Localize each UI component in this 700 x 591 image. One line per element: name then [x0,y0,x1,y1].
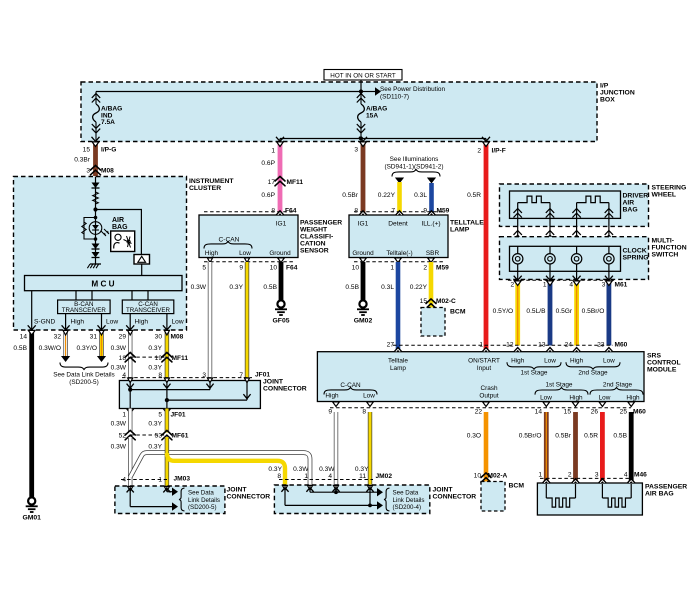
svg-text:7: 7 [391,208,395,215]
C-CAN transceiver block [122,300,174,314]
connector M59 dashed line at telltale bottom [354,261,443,263]
svg-text:Detent: Detent [388,221,408,228]
svg-text:Low: Low [540,394,552,401]
svg-text:0.3W: 0.3W [191,284,207,291]
svg-text:10: 10 [352,265,360,272]
connector M46 dashed line [540,477,631,479]
steering wheel box [500,184,649,226]
svg-text:SBR: SBR [426,250,440,257]
svg-text:4: 4 [569,282,573,289]
I/P junction box [81,82,597,142]
svg-text:CLOCK: CLOCK [623,248,647,255]
svg-text:High: High [325,392,339,399]
wire S-GND 0.5B to GM01 [29,331,34,497]
svg-text:GM01: GM01 [22,515,41,522]
connector MF11 in-line mark [275,176,285,185]
SRS control module box [317,352,644,402]
svg-text:MODULE: MODULE [647,367,677,374]
joint connector JF01 box [119,381,260,409]
svg-text:Output: Output [479,392,498,399]
svg-text:3: 3 [602,282,606,289]
svg-text:I/P-G: I/P-G [101,147,116,154]
svg-text:0.3Y: 0.3Y [148,345,162,352]
JF01 internal links [129,381,131,409]
svg-text:(SD110-7): (SD110-7) [380,93,409,100]
wire I/P-F 0.5R (junction box pin 2 to SRS pin 1) [484,142,489,352]
HOT IN ON OR START tag [324,70,402,81]
svg-text:1: 1 [479,342,483,349]
passenger air bag box [537,483,642,515]
svg-text:Ground: Ground [352,250,374,257]
wire 0.5Y/O (clock spring to SRS pin 12) [515,281,520,346]
wire 0.22Y (SBR to BCM M02-C pin 15) [429,262,434,308]
svg-text:CONTROL: CONTROL [647,360,681,367]
wire - cluster lamp branch [95,177,97,265]
svg-text:STEERING: STEERING [652,185,687,192]
svg-text:JF01: JF01 [171,412,186,419]
svg-text:BAG: BAG [623,207,638,214]
BCM box (M02-C) [421,308,445,337]
svg-text:(SD200-5): (SD200-5) [69,379,98,386]
svg-text:(SD200-5): (SD200-5) [188,504,217,511]
svg-text:2: 2 [423,265,427,272]
svg-text:30: 30 [155,334,163,341]
svg-text:2nd Stage: 2nd Stage [578,369,608,376]
svg-text:18: 18 [119,355,127,362]
svg-text:9: 9 [423,208,427,215]
svg-text:24: 24 [565,342,573,349]
svg-text:F64: F64 [286,265,298,272]
svg-text:High: High [71,319,85,326]
svg-text:M59: M59 [437,208,450,215]
svg-text:23: 23 [597,342,605,349]
svg-text:14: 14 [535,408,543,415]
wire 0.5L/B (clock spring to SRS pin 13) [548,281,553,346]
connector F64 dashed line at PWCS top [204,211,294,213]
wire 0.3L (telltale to SRS pin 27) [396,262,401,352]
svg-text:0.3Y/O: 0.3Y/O [76,345,97,352]
svg-text:PASSENGER: PASSENGER [300,220,342,227]
connector F64 dashed line at PWCS bottom [204,261,294,263]
svg-text:M08: M08 [101,168,114,175]
svg-text:13: 13 [538,342,546,349]
svg-text:TELLTALE: TELLTALE [450,220,484,227]
svg-text:10: 10 [270,265,278,272]
svg-text:9: 9 [328,408,332,415]
svg-text:SPRING: SPRING [623,255,649,262]
svg-text:AIR: AIR [112,217,124,224]
svg-text:0.3Y: 0.3Y [229,284,243,291]
svg-text:(SD200-4): (SD200-4) [393,504,422,511]
svg-text:WHEEL: WHEEL [652,192,677,199]
wire 0.3W (JF01 pin 1 to MF61 pin 52) [128,409,132,433]
svg-text:0.5B: 0.5B [13,345,27,352]
svg-text:M59: M59 [436,265,449,272]
svg-text:Low: Low [363,392,375,399]
svg-text:15: 15 [83,147,91,154]
svg-text:0.5R: 0.5R [584,433,598,440]
svg-text:10: 10 [474,473,482,480]
arrow into 0.3L wire [427,178,436,184]
svg-text:Low: Low [172,319,184,326]
svg-text:Low: Low [603,357,615,364]
connector JM03 dashed line [121,479,167,481]
svg-text:JOINT: JOINT [263,379,284,386]
JM03 internal arrows to data link [128,486,133,491]
svg-text:High: High [511,357,525,364]
svg-text:Ground: Ground [269,250,291,257]
wire - internal bus to fuses [96,91,361,93]
ground GM02 [359,300,366,307]
svg-text:See Data: See Data [188,490,214,497]
connector M02-C in-line mark [426,299,436,308]
multi-function switch box [500,237,649,280]
svg-text:0.5B: 0.5B [263,284,277,291]
wire 0.3Y (PWCS C-CAN Low to JF01 pin 7) [245,262,249,381]
svg-text:4: 4 [624,472,628,479]
svg-text:GM02: GM02 [354,318,373,325]
svg-text:15: 15 [564,408,572,415]
svg-text:0.3Y: 0.3Y [148,444,162,451]
svg-text:I/P: I/P [600,83,609,90]
svg-text:INSTRUMENT: INSTRUMENT [189,178,234,185]
svg-text:JUNCTION: JUNCTION [600,90,635,97]
svg-text:F64: F64 [285,208,297,215]
diode D2 [92,244,100,250]
wire 0.3W (SRS C-CAN High to JM02 pin 4) [334,412,338,485]
svg-text:19: 19 [155,355,163,362]
svg-text:11: 11 [359,473,366,480]
svg-text:2: 2 [511,282,515,289]
svg-text:0.5Br/O: 0.5Br/O [582,308,605,315]
wire 0.3Y (MF61 to JM03 pin 1 and branch to JM02 pin 8) [165,437,169,486]
svg-text:26: 26 [591,408,599,415]
svg-text:JOINT: JOINT [433,487,454,494]
ground - cluster internal [90,263,101,265]
svg-text:SENSOR: SENSOR [300,248,329,255]
svg-text:MF11: MF11 [172,355,189,362]
connector M61 dashed line [508,279,614,281]
svg-text:2: 2 [568,472,572,479]
svg-text:CONNECTOR: CONNECTOR [263,386,307,393]
wire 0.5B (SRS pin 25 to passenger airbag pin 4) [629,412,634,483]
svg-text:0.3L: 0.3L [381,284,394,291]
svg-text:1: 1 [538,472,542,479]
arrow - See Power Distribution [361,91,375,93]
svg-text:AIR BAG: AIR BAG [645,491,674,498]
svg-text:TRANSCEIVER: TRANSCEIVER [126,307,171,314]
svg-text:0.3W: 0.3W [111,345,127,352]
diode D1 [92,183,100,189]
node - fuse output junction [359,136,363,140]
wire 0.3Y/O (B-CAN Low to data link) [99,331,103,356]
connector JM02 dashed line [279,479,373,481]
See Data Link Details (SD200-5) reference [60,363,108,370]
svg-text:CONNECTOR: CONNECTOR [227,494,271,501]
connector M60 dashed line at SRS top [393,344,613,346]
wires - driver air bag to clock spring [517,218,519,247]
wire 0.5B (PWCS ground to GF05) [279,262,284,300]
svg-text:M46: M46 [634,472,647,479]
svg-text:12: 12 [506,342,514,349]
svg-text:High: High [569,394,583,401]
wire 0.6P (junction box pin 1 to F64 pin 8) [278,142,283,215]
svg-text:8: 8 [362,408,366,415]
svg-text:0.3O: 0.3O [467,433,481,440]
connector M08 in-line mark [91,165,101,174]
svg-text:0.3L: 0.3L [414,192,427,199]
svg-text:0.22Y: 0.22Y [410,284,428,291]
wire 0.5Br/O (SRS pin 14 to passenger airbag pin 1) [544,412,549,483]
svg-text:0.3W: 0.3W [111,444,127,451]
svg-text:M60: M60 [615,342,628,349]
svg-text:High: High [205,250,219,257]
svg-text:GF05: GF05 [273,318,290,325]
svg-text:4: 4 [328,473,332,480]
svg-text:M08: M08 [171,334,184,341]
svg-text:0.5Y/O: 0.5Y/O [493,308,514,315]
svg-text:15A: 15A [366,112,378,119]
svg-text:32: 32 [54,334,62,341]
svg-text:0.6P: 0.6P [261,192,275,199]
svg-text:Input: Input [477,365,491,372]
svg-text:M C U: M C U [91,280,114,289]
wire I/P-G 0.3Br (junction box pin 15 to M08) [93,142,98,176]
svg-text:0.5Br/O: 0.5Br/O [519,433,542,440]
instrument cluster box [14,177,187,331]
svg-text:0.5L/B: 0.5L/B [526,308,546,315]
svg-text:1: 1 [390,265,394,272]
svg-text:Link Details: Link Details [188,497,220,504]
svg-text:High: High [570,357,584,364]
svg-text:31: 31 [90,334,98,341]
svg-text:0.3Y: 0.3Y [148,365,162,372]
connector M59 dashed line at telltale top [354,211,443,213]
svg-text:Lamp: Lamp [390,365,406,372]
svg-text:17: 17 [268,179,276,186]
svg-text:8: 8 [277,473,281,480]
svg-text:7.5A: 7.5A [101,119,115,126]
svg-text:1: 1 [122,412,126,419]
svg-text:1st Stage: 1st Stage [520,369,547,376]
passenger air bag squib 1 [545,484,547,498]
svg-text:3: 3 [595,472,599,479]
ground GM01 [28,497,35,504]
svg-text:JM03: JM03 [174,475,191,482]
driver air bag squib 1 [517,203,519,218]
svg-text:I/P-F: I/P-F [492,148,506,155]
svg-text:CATION: CATION [300,241,326,248]
svg-text:AIR: AIR [623,200,635,207]
svg-text:1: 1 [543,282,547,289]
passenger air bag squib 2 [601,484,603,498]
svg-text:Low: Low [544,357,556,364]
ground GF05 [277,300,284,307]
wires - transceivers to cluster connector [65,314,67,330]
svg-text:JM02: JM02 [376,473,393,480]
svg-text:29: 29 [119,334,127,341]
connector JF01 dashed line at top [122,377,252,379]
svg-text:14: 14 [20,334,28,341]
wire 0.5Gr (clock spring to SRS pin 24) [574,281,579,346]
svg-text:3: 3 [354,147,358,154]
connector MF11 in-line (pins 18/19) [130,356,167,358]
svg-text:0.5B: 0.5B [345,284,359,291]
resistor R1 [93,192,99,204]
wire 0.3Y (SRS C-CAN Low to JM02 pin 11) [368,412,372,485]
clock spring box [510,246,621,271]
node - bus junction [359,89,363,93]
JM02 internal arrows to data link [282,485,287,490]
svg-text:JF01: JF01 [255,372,270,379]
wire - MCU to S-GND pin [31,291,33,330]
wires - MCU to C-CAN transceiver [131,291,133,300]
wire - branch to warning symbol and MCU [96,210,142,255]
svg-text:LAMP: LAMP [450,227,470,234]
svg-text:See Data: See Data [393,490,419,497]
svg-text:IG1: IG1 [276,221,287,228]
svg-text:DRIVER: DRIVER [623,193,649,200]
telltale lamp box [349,215,448,258]
svg-text:25: 25 [620,408,628,415]
wires - MCU to B-CAN transceiver [75,291,77,300]
wire 0.3L (illumination to M59 pin 9) [429,183,434,215]
svg-text:TRANSCEIVER: TRANSCEIVER [62,307,107,314]
svg-text:Telltale(-): Telltale(-) [386,250,412,257]
joint connector JM03 box [115,486,225,514]
svg-text:CLUSTER: CLUSTER [189,185,221,192]
diode D3 [92,252,100,258]
svg-text:MF11: MF11 [287,179,304,186]
svg-text:0.6P: 0.6P [261,160,275,167]
wire 0.3W/O (B-CAN High to data link) [63,331,67,356]
wire 0.3Y (C-CAN Low, cluster to JF01 pin 8) [165,331,169,381]
svg-text:1st Stage: 1st Stage [545,381,572,388]
joint connector JM02 box [274,485,429,514]
airbag LED indicator [94,216,98,220]
svg-text:1: 1 [271,148,275,155]
svg-text:0.5Br: 0.5Br [555,433,572,440]
svg-text:5: 5 [202,265,206,272]
svg-text:BOX: BOX [600,97,615,104]
wire 0.5Br (SRS pin 15 to passenger airbag pin 2) [573,412,578,483]
svg-text:HOT IN ON OR START: HOT IN ON OR START [330,73,396,80]
svg-text:0.3W/O: 0.3W/O [39,345,61,352]
svg-text:See Illuminations: See Illuminations [390,156,439,163]
svg-text:BCM: BCM [450,309,466,316]
svg-text:M02-C: M02-C [436,298,456,305]
driver air bag squib 2 [576,203,578,218]
wire - internal bus from 15A fuse to pins 1 and 2 [280,138,486,140]
BCM box (M02-A) [481,482,505,512]
svg-text:WEIGHT: WEIGHT [300,227,328,234]
svg-text:BCM: BCM [509,483,525,490]
svg-text:22: 22 [475,408,483,415]
svg-text:MULTI-: MULTI- [652,237,675,244]
svg-text:SRS: SRS [647,353,661,360]
svg-text:Low: Low [599,394,611,401]
driver air bag box [510,191,621,218]
wire 0.5R (SRS pin 26 to passenger airbag pin 3) [600,412,605,483]
svg-text:0.22Y: 0.22Y [378,192,396,199]
wire 0.5B (telltale ground to GM02) [361,262,366,300]
svg-text:See Power Distribution: See Power Distribution [380,86,445,93]
svg-text:See Data Link Details: See Data Link Details [53,372,114,379]
svg-text:0.5R: 0.5R [467,192,481,199]
svg-text:ON/START: ON/START [468,358,500,365]
svg-text:27: 27 [387,342,395,349]
svg-text:2nd Stage: 2nd Stage [603,381,633,388]
svg-text:2: 2 [477,148,481,155]
B-CAN transceiver block [58,300,111,314]
svg-text:0.3W: 0.3W [319,466,335,473]
svg-text:BAG: BAG [112,224,128,231]
svg-text:JOINT: JOINT [227,487,248,494]
svg-text:0.5B: 0.5B [613,433,627,440]
wire 0.5Br/O (clock spring to SRS pin 23) [607,281,612,346]
svg-text:Telltale: Telltale [388,358,408,365]
fuse A/BAG 15A [357,94,365,103]
svg-text:MF61: MF61 [172,433,189,440]
svg-text:SWITCH: SWITCH [652,251,679,258]
svg-text:52: 52 [119,433,127,440]
wire 0.3W (MF61 to JM03 pin 4 and branch to JM02 pin 1) [128,437,132,486]
svg-text:ILL.(+): ILL.(+) [421,221,440,228]
wire 0.3Y (JF01 pin 5 to MF61 pin 53) [165,409,169,433]
svg-text:3: 3 [86,168,90,175]
svg-text:8: 8 [271,208,275,215]
svg-text:Low: Low [106,319,118,326]
svg-text:9: 9 [239,265,243,272]
svg-text:53: 53 [155,433,163,440]
wire 0.22Y (illumination to M59 pin 7) [397,182,402,215]
svg-text:S-GND: S-GND [34,319,55,326]
MCU block [25,276,183,291]
svg-text:1: 1 [304,473,308,480]
svg-text:PASSENGER: PASSENGER [645,484,687,491]
node - branch to MCU [93,207,97,211]
wire 0.3W (PWCS C-CAN High to JF01 pin 3) [208,262,212,381]
svg-text:(SD941-1)(SD941-2): (SD941-1)(SD941-2) [385,164,444,171]
svg-text:IG1: IG1 [358,221,369,228]
svg-text:8: 8 [354,208,358,215]
airbag pictogram [111,231,135,252]
svg-text:CLASSIFI-: CLASSIFI- [300,234,333,241]
arrow into 0.22Y wire [395,178,404,184]
passenger weight classification sensor box [199,215,298,258]
svg-text:High: High [626,394,640,401]
connector M60 dashed line at SRS bottom [330,407,631,409]
svg-text:0.3W: 0.3W [111,421,127,428]
wire 0.5Br (junction box pin 3 to M59 pin 8) [361,142,366,215]
fuse A/BAG IND 7.5A [92,94,100,103]
connector MF61 in-line (pins 52/53) [130,434,167,436]
svg-text:M61: M61 [615,282,628,289]
wire 0.3O (crash output to BCM M02-A pin 10) [484,412,489,482]
svg-text:0.3Br: 0.3Br [74,157,91,164]
connector M02-A in-line mark [481,473,491,482]
svg-text:Link Details: Link Details [393,497,425,504]
clock spring coils [517,246,519,253]
svg-text:5: 5 [158,412,162,419]
svg-text:Low: Low [239,250,251,257]
svg-text:0.3Y: 0.3Y [148,421,162,428]
svg-text:FUNCTION: FUNCTION [652,244,687,251]
svg-text:CONNECTOR: CONNECTOR [433,494,477,501]
svg-text:0.5Br: 0.5Br [342,192,359,199]
svg-text:M60: M60 [633,408,646,415]
wire 0.3W (C-CAN High, cluster to JF01 pin 4) [128,331,132,381]
